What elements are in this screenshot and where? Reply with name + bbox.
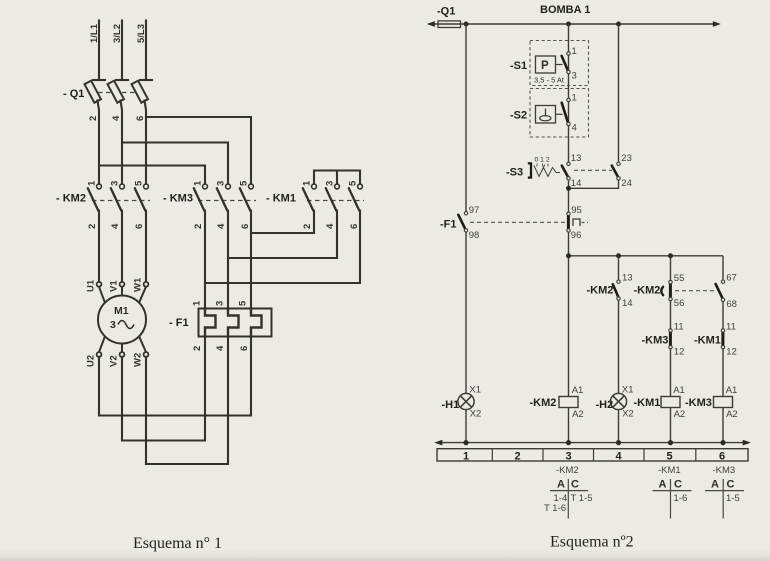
motor M1 body [98,287,146,352]
svg-text:-KM2: -KM2 [556,465,579,476]
pin 14 S3 [567,177,570,180]
wire V3 rail to S3 23 [618,24,620,162]
svg-text:-F1: -F1 [440,219,457,231]
svg-text:A2: A2 [674,409,686,420]
svg-text:1-5: 1-5 [726,493,740,504]
svg-text:- KM1: - KM1 [266,193,296,205]
svg-text:12: 12 [674,347,685,358]
svg-text:6: 6 [135,116,146,121]
node junction rail/6 [720,440,725,445]
svg-text:4: 4 [110,223,121,229]
wire KM1 pin6 loop [205,211,360,284]
linkage 55/67 [675,290,716,292]
svg-text:0 1 2: 0 1 2 [535,157,550,164]
svg-text:14: 14 [622,298,633,309]
svg-text:4: 4 [325,223,336,229]
pin 4 S2 [567,122,570,125]
arrow bottom rail left [434,440,442,446]
wire V5 KM1 12 to KM3 coil [722,349,724,443]
svg-text:5: 5 [239,180,250,186]
svg-text:3: 3 [110,319,116,331]
wire KM2 to motor W1 [145,211,147,283]
svg-text:C: C [674,479,682,491]
svg-text:3: 3 [216,181,227,186]
svg-text:95: 95 [571,205,582,216]
svg-text:1-6: 1-6 [674,493,688,504]
wire W2 to F1 pin4 [146,337,228,465]
wire feeder L3 to KM3 pole5 [146,117,251,184]
svg-text:98: 98 [469,230,480,241]
svg-text:1: 1 [192,300,203,306]
wire Q1 pole3 to KM2 [145,101,147,185]
terminal strip 1-6 [437,449,748,461]
svg-text:5: 5 [348,180,359,186]
svg-text:A1: A1 [673,385,685,396]
svg-text:6: 6 [239,346,250,351]
wire supply line L3 [145,21,147,81]
switch S1 contact blade [562,56,569,71]
wire V3 KM2 14 to lamp H2 [618,300,620,393]
svg-text:3,5 - 5 At: 3,5 - 5 At [534,76,565,85]
svg-text:W2: W2 [133,353,144,367]
switch S2 enclosure [530,89,589,138]
pin 1 S2 [567,98,570,101]
node junction rail/V1 [464,22,469,27]
wire Q1 pole1 to KM2 [98,101,100,185]
svg-text:A2: A2 [572,409,584,420]
wire KM1 pin4 loop [228,211,337,259]
svg-text:T 1-6: T 1-6 [544,503,566,514]
svg-text:U2: U2 [86,355,97,367]
svg-text:-KM2: -KM2 [634,285,661,297]
wire V2 to F1 pin2 [122,337,205,441]
timer S3 spring [534,166,560,177]
svg-text:6: 6 [719,450,725,462]
arrow top rail left [427,21,435,27]
svg-text:- KM3: - KM3 [163,193,193,205]
svg-text:- Q1: - Q1 [63,88,84,100]
svg-text:-KM2: -KM2 [530,397,557,409]
node junction rail/1 [463,440,468,445]
motor M1 terminals U1 V1 W1 [97,282,149,287]
svg-text:A: A [557,479,565,491]
svg-text:BOMBA 1: BOMBA 1 [540,4,590,16]
wire V5 68 to KM1 11 [722,301,724,329]
timer S3 lever [528,163,531,177]
trip symbol F1 [573,219,580,226]
svg-text:-KM1: -KM1 [694,335,721,347]
node junction rail/5 [668,440,673,445]
timer S3 pointer [542,165,545,172]
svg-text:V2: V2 [109,355,120,367]
motor M1 terminals U2 V2 W2 [97,352,149,357]
svg-text:14: 14 [571,178,582,189]
svg-text:1: 1 [193,180,204,186]
svg-text:11: 11 [674,322,684,333]
svg-text:1: 1 [302,180,313,186]
svg-text:1: 1 [572,46,577,57]
pin 24 S3 [617,177,620,180]
wire KM3 pole6 down to F1 pin5 [250,211,252,309]
wire KM3 pole4 down to F1 pin3 [227,211,229,309]
svg-text:96: 96 [571,230,582,241]
wire Q1 pole2 to KM2 [121,101,123,185]
wire S1 actuator link [556,64,563,66]
svg-text:2: 2 [193,224,204,229]
wire KM1 star bridge [314,171,360,185]
svg-text:X2: X2 [622,409,634,420]
svg-text:2: 2 [87,224,98,229]
wire V1 lamp H1 to bottom rail [465,410,467,443]
svg-text:- KM2: - KM2 [56,193,86,205]
relay F1 body [199,309,272,337]
svg-text:6: 6 [240,224,251,229]
svg-text:3/L2: 3/L2 [112,24,123,43]
breaker Q1 linkage [90,92,146,94]
node junction rail/V3 [616,22,621,27]
motor sine symbol [118,321,134,329]
timer S3 contact 13/14 blade [562,166,568,178]
svg-text:X2: X2 [470,409,482,420]
pin 3 S1 [567,70,570,73]
node L2 terminal tick [116,79,128,81]
svg-text:2: 2 [192,346,203,351]
svg-text:2: 2 [302,224,313,229]
svg-text:A: A [711,479,719,491]
wire KM1 pin2 loop [251,211,314,234]
node L1 terminal tick [93,79,105,81]
svg-text:3: 3 [215,301,226,306]
wire V5 bus corner to 67 [722,256,724,280]
svg-text:-KM3: -KM3 [685,397,712,409]
contactor KM3 contacts [194,188,251,210]
svg-text:13: 13 [622,273,633,284]
wire V3 lamp H2 to bottom rail [618,410,620,443]
contactor KM3 linkage [198,200,256,202]
svg-text:V1: V1 [109,280,120,292]
svg-text:A1: A1 [572,385,584,396]
svg-text:4: 4 [215,345,226,351]
svg-text:C: C [727,479,735,491]
fuse Q1 pole 1 [84,81,100,103]
svg-text:2: 2 [88,116,99,121]
arrow bottom rail right [743,440,751,446]
wire KM2 to motor V1 [121,211,123,283]
svg-text:-H1: -H1 [442,399,460,411]
svg-text:4: 4 [216,223,227,229]
svg-text:56: 56 [674,298,685,309]
svg-text:4: 4 [616,450,623,462]
node junction bus/V4 [668,253,673,258]
svg-text:2: 2 [515,450,521,462]
contactor KM2 contacts [88,188,146,210]
svg-text:1/L1: 1/L1 [89,23,100,43]
contact terminal circles row [97,184,363,189]
pin 13 S3 [567,162,570,165]
node junction bus/V2 [566,253,571,258]
switch S2 float box [536,106,556,124]
net control bus [569,255,724,257]
svg-text:1: 1 [87,180,98,186]
wire supply line L2 [121,21,123,81]
svg-text:-KM2: -KM2 [587,285,614,297]
pin 23 S3 [617,162,620,165]
svg-text:4: 4 [111,115,122,121]
svg-text:X1: X1 [469,385,481,396]
svg-text:-KM1: -KM1 [658,465,681,476]
wire feeder L2 to KM3 pole3 [122,143,228,185]
svg-text:6: 6 [134,224,145,229]
svg-text:X1: X1 [622,385,634,396]
node junction bus/V3 [616,253,621,258]
svg-text:5: 5 [134,180,145,186]
svg-text:97: 97 [469,205,480,216]
fuse Q1 pole 3 [131,81,147,103]
node junction 14/24 [566,186,571,191]
wire V2 chain S1-S2-S3-F1-KM2coil [568,24,570,443]
svg-text:A1: A1 [726,385,738,396]
svg-text:6: 6 [349,224,360,229]
contactor KM1 contacts [303,188,360,210]
wire V1 rail to F1 97 [465,24,467,212]
timer S3 contact 23/24 blade [612,166,618,178]
svg-text:-S3: -S3 [506,167,523,179]
svg-text:A2: A2 [726,409,738,420]
net L top rail [431,23,717,25]
svg-text:24: 24 [621,178,632,189]
svg-text:-KM3: -KM3 [713,465,736,476]
pin 1 S1 [567,52,570,55]
linkage F1 [470,221,566,223]
wire V4 bus to KM2 55 [670,256,672,280]
svg-text:1: 1 [463,450,469,462]
wire S3 24 joins V2 [570,180,619,188]
wire KM3 pole2 down to F1 pin1 [204,211,206,309]
svg-text:C: C [571,479,579,491]
linkage S3 contacts [574,169,612,171]
contactor KM2 linkage [92,200,150,202]
node junction rail/4 [616,440,621,445]
svg-text:5: 5 [667,450,673,462]
switch S1 enclosure [530,41,589,86]
svg-text:P: P [541,60,549,72]
wire supply line L1 [98,21,100,81]
svg-text:5: 5 [238,300,249,306]
svg-text:1: 1 [572,93,577,104]
wire V4 56 to KM3 11 [670,301,672,329]
contact KM? 67/68 [716,284,723,299]
svg-text:-KM3: -KM3 [642,335,669,347]
svg-text:M1: M1 [114,305,129,317]
svg-text:W1: W1 [133,277,144,292]
switch S2 contact blade [562,103,569,124]
wire feeder L1 to KM3 pole1 [99,166,205,185]
svg-text:-KM1: -KM1 [634,397,661,409]
svg-text:68: 68 [726,299,737,310]
svg-text:3: 3 [110,181,121,186]
svg-text:-S1: -S1 [510,60,527,72]
arrow top rail right [713,21,721,27]
node junction rail/V2 [566,22,571,27]
svg-text:3: 3 [572,71,577,82]
svg-text:A: A [659,479,667,491]
wire V4 KM3 12 to KM1 coil [670,349,672,443]
wire S2 actuator link [556,113,563,115]
svg-text:55: 55 [674,273,685,284]
contactor KM1 linkage [307,200,364,202]
svg-text:67: 67 [726,273,737,284]
wire U2 to F1 pin6 [99,337,251,416]
fuse Q1 pole 2 [107,81,123,103]
svg-text:T 1-5: T 1-5 [571,493,593,504]
svg-text:3: 3 [325,181,336,186]
relay contact F1 95/96 [567,215,570,229]
node L3 terminal tick [140,79,152,81]
svg-text:Esquema nº2: Esquema nº2 [550,534,634,551]
switch S1 pressure box P [536,56,556,73]
wire V1 F1 98 to lamp H1 [465,232,467,393]
wire KM2 to motor U1 [98,211,100,283]
svg-text:12: 12 [726,347,737,358]
svg-text:5/L3: 5/L3 [136,24,147,43]
node junction rail/3 [566,440,571,445]
wire V3 bus to KM2 13 [618,256,620,280]
svg-text:4: 4 [572,123,577,134]
svg-text:3: 3 [566,450,572,462]
svg-text:- F1: - F1 [169,317,189,329]
svg-text:11: 11 [726,322,736,333]
fuse Q1 (control) [438,21,461,28]
svg-text:13: 13 [571,153,582,164]
svg-text:-Q1: -Q1 [437,6,455,18]
svg-text:U1: U1 [86,279,97,292]
svg-text:-S2: -S2 [510,110,527,122]
net bottom rail [437,442,747,444]
svg-text:23: 23 [621,153,632,164]
